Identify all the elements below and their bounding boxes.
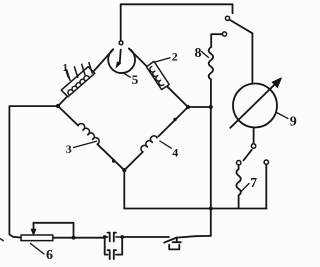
switch S2 right contact [264,160,268,164]
winding 4 [140,134,158,152]
svg-text:1: 1 [63,62,69,74]
label 7 pointer [241,184,249,192]
wire oscillator to pole contact [253,127,255,143]
svg-text:2: 2 [172,50,178,64]
rheostat 6 wiper [34,223,74,238]
node on arm 4 [173,118,176,121]
bridge arm lower-right wire [124,107,188,170]
svg-text:9: 9 [290,115,297,130]
wire top terminal drop [120,4,122,41]
node bottom vertex [122,168,126,172]
slidewire 5 body [108,48,135,73]
bridge arm lower-left wire [58,106,124,170]
node wiper junction [72,236,76,240]
switch S2 pole contact [251,144,255,148]
node battery left [103,235,107,239]
inductor 8 [209,47,213,79]
wire right contact down [265,164,267,208]
wire top rail [121,4,233,13]
battery B bottom cell [108,250,117,259]
label 4 pointer [160,141,172,148]
label 6 pointer [31,244,45,255]
impedance 2 body [146,61,169,89]
battery B loop [105,237,123,255]
wire down-left to key switch [177,236,211,238]
wire battery to key switch [122,236,169,238]
wire junction to right bridge vertex [188,106,211,108]
impedance 1 hatching [67,63,93,81]
label 1 pointer [66,72,68,78]
svg-text:3: 3 [66,142,72,156]
rheostat 6 body [21,235,53,241]
oscillator 9 body [233,84,277,128]
node battery right [120,235,124,239]
wire rheostat to battery [53,237,105,239]
svg-text:8: 8 [195,46,202,61]
svg-text:7: 7 [250,176,257,191]
edge artifact mark [0,239,3,241]
wire left rail [9,106,58,237]
wire bottom vertex drop [123,170,125,208]
impedance 1 winding [67,75,89,95]
switch S2 blade [243,150,251,161]
label 3 pointer [74,141,97,147]
switch S1 blade [229,20,252,34]
impedance 1 body [61,67,95,97]
label 2 pointer [155,58,170,62]
key switch K base [169,245,179,250]
switch S2 left contact [237,161,241,165]
terminal of slidewire 5 [119,41,123,45]
wire coil 8 down to junction [210,79,212,107]
svg-text:5: 5 [132,72,139,87]
slidewire 5 wiper [119,50,122,63]
node junction right [209,105,213,109]
winding 3 [78,122,101,144]
bridge arm upper-right wire [129,49,188,107]
inductor 7 [236,165,240,209]
wire bottom rail [124,208,266,210]
node crossing bottom rail [209,207,213,211]
label 5 pointer [123,73,131,78]
battery B top cell [108,233,117,242]
node on arm 3 [112,159,115,162]
bridge arm upper-left wire [58,49,113,106]
wire contact to coil 8 [211,34,222,47]
switch S1 top contact [225,16,229,20]
node left vertex [56,104,60,108]
oscillator 9 arrow [230,84,275,128]
label 8 pointer [202,52,209,58]
svg-text:6: 6 [46,248,53,263]
label 9 pointer [277,113,288,119]
wire right drop to oscillator [251,33,253,83]
wire vertical down right-middle [210,107,212,236]
node right vertex [186,105,190,109]
key switch K blade [164,238,177,243]
switch S1 left contact [222,32,226,36]
impedance 2 winding [149,67,164,87]
key switch K contact tee [173,238,181,243]
svg-text:4: 4 [172,145,178,159]
